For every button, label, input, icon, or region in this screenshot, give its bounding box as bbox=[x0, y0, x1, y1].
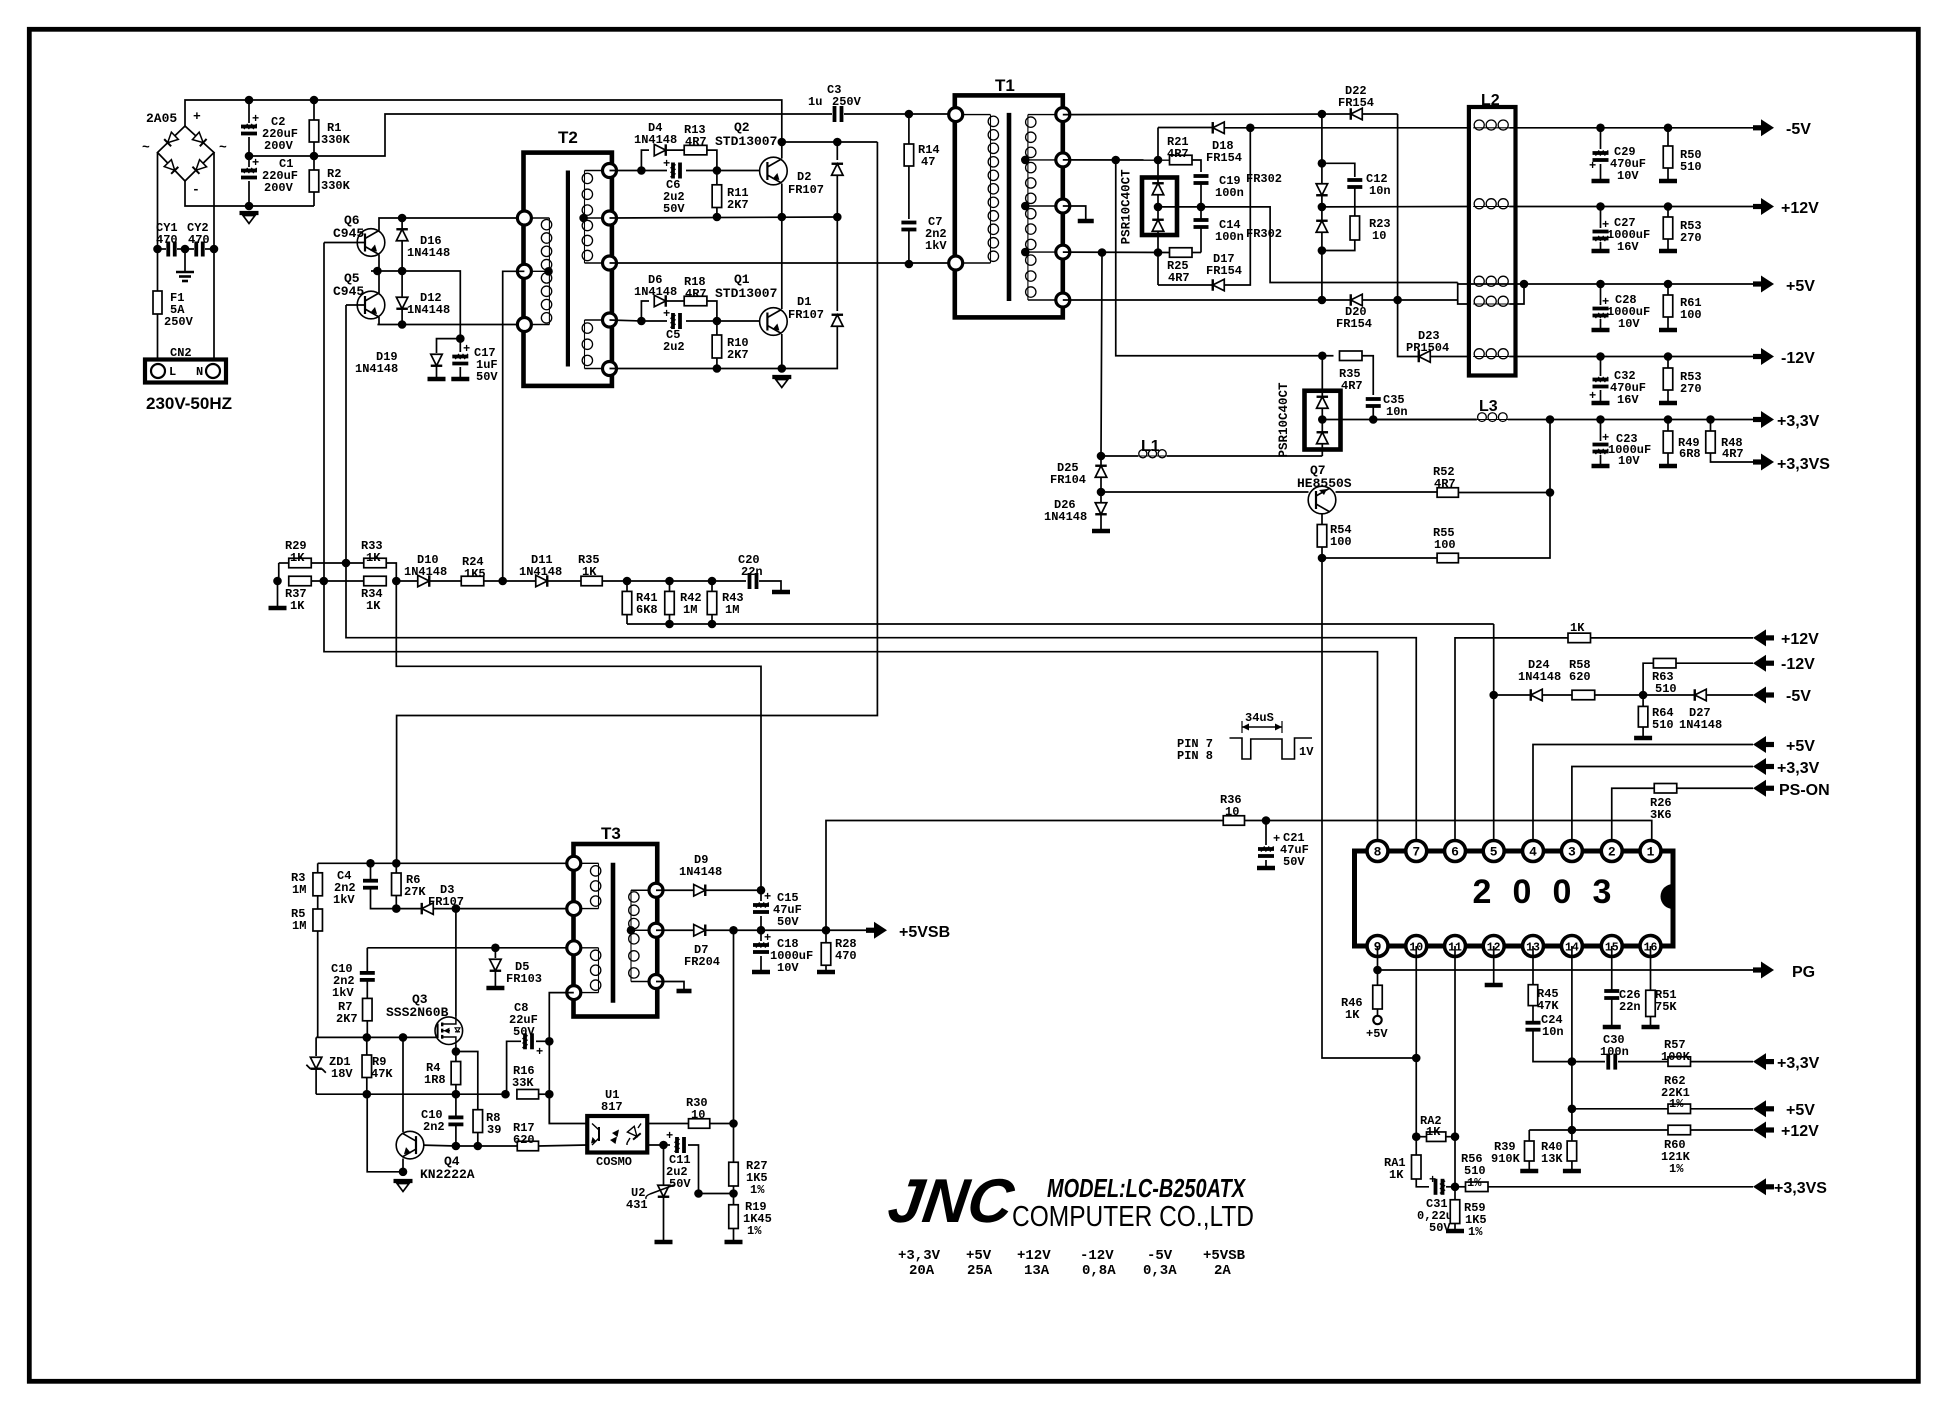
node R8 bottom bbox=[474, 1142, 483, 1151]
svg-text:+: + bbox=[764, 890, 771, 904]
IC pin 14 bbox=[1561, 936, 1582, 957]
capacitor C21 47uF 50V bbox=[1265, 821, 1267, 846]
resistor R21 4R7 bbox=[1170, 155, 1193, 165]
svg-text:HE8550S: HE8550S bbox=[1297, 476, 1352, 491]
node Q1 emitter bbox=[778, 364, 787, 373]
T3 pin left3 bbox=[567, 941, 581, 955]
node R13/C6 right bbox=[713, 166, 722, 175]
node R35 left bbox=[1318, 351, 1327, 360]
svg-text:1N4148: 1N4148 bbox=[679, 865, 722, 879]
resistor R58 620 bbox=[1572, 690, 1595, 700]
IC pin 11 bbox=[1445, 936, 1466, 957]
svg-text:+: + bbox=[1429, 1173, 1436, 1187]
svg-text:PSR10C40CT: PSR10C40CT bbox=[1277, 382, 1291, 458]
svg-text:47K: 47K bbox=[1537, 999, 1559, 1013]
node bottom bbox=[245, 202, 254, 211]
node bbox=[665, 620, 674, 629]
resistor R52 4R7 bbox=[1437, 488, 1458, 498]
capacitor C15 47uF 50V bbox=[760, 890, 762, 901]
svg-text:1N4148: 1N4148 bbox=[1044, 510, 1087, 524]
svg-text:-5V: -5V bbox=[1786, 688, 1811, 705]
T3 pin left4 bbox=[567, 986, 581, 1000]
resistor R57 100K bbox=[1668, 1057, 1691, 1067]
node bbox=[1318, 246, 1327, 255]
svg-text:+: + bbox=[252, 112, 259, 126]
resistor RA2 1K bbox=[1416, 1136, 1426, 1138]
svg-text:4R7: 4R7 bbox=[1434, 477, 1456, 491]
svg-text:MODEL:LC-B250ATX: MODEL:LC-B250ATX bbox=[1047, 1173, 1246, 1203]
node bbox=[363, 1090, 372, 1099]
svg-text:1K: 1K bbox=[290, 599, 305, 613]
svg-text:4R7: 4R7 bbox=[1341, 379, 1363, 393]
capacitor C12 10n bbox=[1322, 163, 1355, 177]
resistor R59 1K5 1% bbox=[1450, 1200, 1460, 1224]
capacitor C27 1000uF 16V bbox=[1600, 207, 1602, 229]
svg-text:75K: 75K bbox=[1655, 1000, 1677, 1014]
svg-text:L3: L3 bbox=[1479, 398, 1498, 415]
capacitor C7 2n2 1kV bbox=[901, 221, 916, 225]
svg-text:+5VSB: +5VSB bbox=[899, 924, 950, 941]
T1 tap3 bbox=[1021, 248, 1030, 257]
svg-text:CN2: CN2 bbox=[170, 346, 192, 360]
resistor R2 bbox=[313, 156, 315, 170]
-5V rail bbox=[1509, 127, 1753, 129]
svg-text:1%: 1% bbox=[747, 1224, 762, 1238]
svg-text:4: 4 bbox=[1529, 845, 1537, 860]
svg-text:+12V: +12V bbox=[1781, 631, 1819, 648]
svg-text:1: 1 bbox=[1647, 845, 1655, 860]
svg-text:470: 470 bbox=[156, 233, 178, 247]
wire U1 pin3 bbox=[647, 1144, 663, 1146]
resistor RA1 1K bbox=[1412, 1155, 1422, 1179]
resistor R23 10 bbox=[1350, 216, 1360, 240]
wire pin15 / capacitor C26 22n bbox=[1611, 946, 1613, 991]
svg-text:22n: 22n bbox=[1619, 1000, 1641, 1014]
left leg bbox=[278, 563, 280, 581]
svg-text:+3,3VS: +3,3VS bbox=[1774, 1180, 1827, 1197]
capacitor C29 470uF 10V bbox=[1600, 128, 1602, 149]
svg-text:2: 2 bbox=[1473, 873, 1492, 911]
line R34 node to D9 node bbox=[396, 581, 761, 890]
T3 pin right2 bbox=[649, 923, 663, 937]
IC pin 16 bbox=[1640, 936, 1661, 957]
node CY2 right bbox=[210, 245, 219, 254]
svg-text:3K6: 3K6 bbox=[1650, 808, 1672, 822]
svg-text:0: 0 bbox=[1513, 873, 1532, 911]
svg-text:1K5: 1K5 bbox=[464, 567, 486, 581]
ground bbox=[184, 249, 186, 272]
wire Q1 base bbox=[717, 320, 760, 322]
svg-text:1M: 1M bbox=[292, 919, 306, 933]
FR302 pair vertical bbox=[1321, 114, 1323, 300]
node R11 bottom bbox=[713, 213, 722, 222]
node R37/R34 bbox=[320, 577, 329, 586]
svg-text:270: 270 bbox=[1680, 231, 1702, 245]
T3 pin right1 bbox=[649, 883, 663, 897]
svg-text:1kV: 1kV bbox=[925, 239, 947, 253]
capacitor C11 2u2 50V bbox=[664, 1144, 671, 1146]
capacitor C20 22n bbox=[748, 573, 752, 589]
wire T2 pin4 to base node bbox=[610, 320, 642, 321]
transformer T3 bbox=[574, 844, 658, 1017]
T2 tap right bbox=[579, 214, 588, 223]
node CY1 left bbox=[153, 245, 162, 254]
Q4 base row bbox=[423, 1144, 517, 1147]
node bbox=[1318, 203, 1327, 212]
svg-text:1kV: 1kV bbox=[333, 893, 355, 907]
svg-text:10V: 10V bbox=[1617, 169, 1639, 183]
capacitor C1 bbox=[248, 156, 250, 167]
svg-text:330K: 330K bbox=[321, 179, 351, 193]
node bbox=[1098, 248, 1107, 257]
svg-text:1N4148: 1N4148 bbox=[404, 565, 447, 579]
svg-text:2K7: 2K7 bbox=[336, 1012, 358, 1026]
svg-text:FR103: FR103 bbox=[506, 972, 542, 986]
wire T2 pin1 to base node bbox=[610, 170, 642, 172]
node D2 top bbox=[833, 138, 842, 147]
svg-text:50V: 50V bbox=[513, 1025, 535, 1039]
resistor R41 6K8 bbox=[626, 581, 628, 591]
T3 pin left2 bbox=[567, 902, 581, 916]
svg-text:817: 817 bbox=[601, 1100, 623, 1114]
wire Q5 collector rail bbox=[378, 271, 380, 293]
resistor R46 1K bbox=[1373, 985, 1383, 1009]
node D2 bottom bbox=[833, 213, 842, 222]
svg-text:470: 470 bbox=[835, 949, 857, 963]
svg-text:KN2222A: KN2222A bbox=[420, 1167, 475, 1182]
svg-text:+3,3V: +3,3V bbox=[898, 1248, 941, 1264]
transistor Q3 SSS2N60B bbox=[435, 1017, 463, 1045]
resistor R37 1K bbox=[289, 576, 312, 586]
node Q4 collector branch bbox=[399, 1033, 408, 1042]
node D5 top bbox=[491, 944, 500, 953]
resistor R18 4R7 bbox=[684, 296, 707, 306]
capacitor C35 10n bbox=[1366, 397, 1381, 401]
svg-text:1K: 1K bbox=[1345, 1008, 1360, 1022]
wire pin5 from snubber line bbox=[1493, 624, 1495, 841]
T1 pin left1 bbox=[949, 108, 963, 122]
T2 pin right3 bbox=[603, 256, 617, 270]
svg-text:47: 47 bbox=[921, 155, 935, 169]
T2 pin right1 bbox=[603, 164, 617, 178]
svg-text:-12V: -12V bbox=[1080, 1248, 1114, 1264]
node C4 top bbox=[366, 859, 375, 868]
Q4 collector bbox=[402, 1037, 404, 1132]
svg-text:34uS: 34uS bbox=[1245, 711, 1274, 725]
svg-text:0: 0 bbox=[1553, 873, 1572, 911]
resistor R4 1R8 bbox=[455, 1052, 457, 1062]
Q2 collector rail bbox=[782, 141, 878, 143]
diode D1 FR107 bbox=[836, 217, 838, 311]
resistor R9 47K bbox=[366, 1037, 368, 1055]
svg-text:7: 7 bbox=[1412, 845, 1420, 860]
svg-text:PIN 8: PIN 8 bbox=[1177, 749, 1213, 763]
transformer T2 bbox=[524, 153, 612, 386]
svg-text:1K: 1K bbox=[582, 565, 597, 579]
wire pin16 / resistor R51 75K bbox=[1650, 946, 1652, 990]
wire R8 branch bbox=[456, 1052, 478, 1110]
diode FR302 upper bbox=[1316, 184, 1328, 196]
svg-text:1N4148: 1N4148 bbox=[1679, 718, 1722, 732]
resistor R35 1K bbox=[581, 576, 602, 586]
svg-text:10: 10 bbox=[1372, 229, 1386, 243]
diode D7 FR204 bbox=[656, 929, 693, 931]
TL431 U2 431 bbox=[663, 1145, 665, 1185]
wire Q7 collector / resistor R54 100 bbox=[1321, 514, 1323, 525]
capacitor C24 10n bbox=[1526, 1021, 1541, 1025]
capacitor CY2 bbox=[185, 248, 194, 250]
inductor L2 bbox=[1469, 107, 1516, 376]
svg-text:JNC: JNC bbox=[884, 1167, 1019, 1236]
svg-text:+5VSB: +5VSB bbox=[1203, 1248, 1246, 1264]
svg-text:250V: 250V bbox=[832, 95, 862, 109]
svg-text:27K: 27K bbox=[404, 885, 426, 899]
svg-text:L: L bbox=[169, 365, 176, 379]
svg-text:50V: 50V bbox=[777, 915, 799, 929]
wire U1 pin1 bbox=[548, 1094, 550, 1123]
resistor R43 1M bbox=[711, 581, 713, 591]
diode D3 FR107 bbox=[396, 908, 421, 910]
wire Q7 emitter to R52 bbox=[1336, 491, 1438, 493]
PG line bbox=[1378, 969, 1754, 971]
capacitor C18 1000uF 10V bbox=[760, 930, 762, 941]
T1 pin right5 bbox=[1056, 293, 1070, 307]
transistor Q1 STD13007 bbox=[760, 308, 788, 336]
wire bridge top to rail bbox=[185, 100, 782, 142]
svg-text:D1: D1 bbox=[797, 295, 811, 309]
PS-ON row / resistor R26 3K6 bbox=[1612, 788, 1655, 840]
capacitor C14 100n bbox=[1200, 207, 1202, 220]
ground bbox=[277, 581, 279, 606]
-12V rail bbox=[1509, 356, 1753, 358]
T1 ground hook bbox=[1063, 206, 1086, 219]
node R7 bottom bbox=[363, 1033, 372, 1042]
wire U1 pin4 / resistor R30 10 bbox=[647, 1123, 688, 1125]
svg-text:1N4148: 1N4148 bbox=[634, 133, 677, 147]
T1 pin right2 bbox=[1056, 153, 1070, 167]
T3 right winding upper bbox=[631, 889, 656, 891]
arrow -12V in bbox=[1753, 655, 1766, 672]
resistor R10 2K7 bbox=[716, 321, 718, 335]
arrow +5V in bbox=[1753, 736, 1766, 753]
resistor R7 2K7 bbox=[363, 998, 373, 1020]
svg-text:25A: 25A bbox=[967, 1263, 993, 1279]
node D24 branch bbox=[1489, 691, 1498, 700]
svg-text:1M: 1M bbox=[725, 603, 739, 617]
svg-text:1K: 1K bbox=[1570, 621, 1585, 635]
svg-text:16V: 16V bbox=[1617, 240, 1639, 254]
node Q2 base branch bbox=[637, 166, 646, 175]
diode D9 1N4148 bbox=[656, 889, 693, 891]
wire pin12 ground bbox=[1493, 946, 1495, 983]
svg-text:510: 510 bbox=[1680, 160, 1702, 174]
svg-text:100K: 100K bbox=[1661, 1050, 1691, 1064]
node R10 bottom bbox=[713, 364, 722, 373]
node bbox=[1596, 352, 1605, 361]
T1 secondary winding bbox=[1028, 114, 1063, 116]
svg-text:STD13007: STD13007 bbox=[715, 286, 777, 301]
svg-text:FR204: FR204 bbox=[684, 955, 720, 969]
node C11 bottom bbox=[694, 1189, 703, 1198]
emitter rail to T2 pin3 bbox=[377, 324, 524, 326]
wire pin10 chain bbox=[1415, 946, 1417, 1155]
Q4 emitter bbox=[402, 1159, 404, 1172]
bridge rectifier 2A05 bbox=[158, 126, 215, 181]
svg-text:0,8A: 0,8A bbox=[1082, 1263, 1116, 1279]
node Q4 emitter bbox=[399, 1168, 408, 1177]
node C21 bbox=[1262, 816, 1271, 825]
node R52 bbox=[1546, 488, 1555, 497]
wire pin9 node bbox=[1377, 946, 1379, 985]
diode D6 1N4148 bbox=[641, 301, 649, 321]
PSR1 top diode bbox=[1152, 183, 1164, 195]
wire T2 pin2-left down to D10/D11 node bbox=[503, 271, 525, 581]
svg-text:3: 3 bbox=[1568, 845, 1576, 860]
svg-text:620: 620 bbox=[513, 1133, 535, 1147]
svg-text:6R8: 6R8 bbox=[1679, 447, 1701, 461]
T3 pin right3 ground bbox=[656, 982, 684, 990]
svg-text:10: 10 bbox=[1225, 805, 1239, 819]
svg-text:1%: 1% bbox=[1669, 1097, 1684, 1111]
snubber line C10a to T3 pin3 bbox=[367, 947, 574, 949]
svg-text:13A: 13A bbox=[1024, 1263, 1050, 1279]
arrow +12V bbox=[1753, 204, 1761, 209]
node midpoint bbox=[778, 213, 787, 222]
wire mid node to C3 line bbox=[249, 114, 832, 156]
svg-text:+: + bbox=[252, 156, 259, 170]
node CY mid bbox=[181, 245, 190, 254]
svg-text:+3,3VS: +3,3VS bbox=[1777, 456, 1830, 473]
node Q5 collector bbox=[373, 267, 382, 276]
rectifier PSR10C40CT bbox=[1142, 178, 1177, 236]
svg-text:1u: 1u bbox=[808, 95, 822, 109]
wire pin11 chain bbox=[1454, 946, 1456, 1200]
IC U3 2003 body bbox=[1355, 851, 1674, 946]
svg-text:50V: 50V bbox=[476, 370, 498, 384]
T3 pin4 wire to C8/U1 bbox=[549, 993, 587, 1124]
svg-text:910K: 910K bbox=[1491, 1152, 1521, 1166]
svg-text:FR302: FR302 bbox=[1246, 227, 1282, 241]
T3 pin left1 bbox=[567, 856, 581, 870]
svg-text:470: 470 bbox=[188, 233, 210, 247]
transistor Q5 C945 bbox=[357, 291, 385, 319]
IC pin 8 bbox=[1367, 841, 1388, 862]
resistor R61 100 bbox=[1667, 284, 1669, 295]
svg-text:FR154: FR154 bbox=[1206, 264, 1242, 278]
resistor R24 1K5 bbox=[461, 576, 484, 586]
svg-text:1%: 1% bbox=[1669, 1162, 1684, 1176]
L2 winding -5V bbox=[1473, 127, 1509, 129]
node D25/D26 bbox=[1097, 488, 1106, 497]
svg-text:1N4148: 1N4148 bbox=[634, 285, 677, 299]
svg-text:1%: 1% bbox=[750, 1183, 765, 1197]
node C7 bottom bbox=[905, 260, 914, 269]
node R63/R64 bbox=[1639, 691, 1648, 700]
svg-text:13K: 13K bbox=[1541, 1152, 1563, 1166]
svg-text:10V: 10V bbox=[1618, 454, 1640, 468]
+5V sense row bbox=[1533, 745, 1753, 841]
T2 pin left2 bbox=[517, 264, 531, 278]
svg-text:6K8: 6K8 bbox=[636, 603, 658, 617]
capacitor C4 2n2 1kV bbox=[370, 863, 372, 880]
svg-text:COSMO: COSMO bbox=[596, 1155, 632, 1169]
node D11 left bbox=[498, 577, 507, 586]
PSR2 top diode bbox=[1317, 397, 1329, 409]
svg-text:PS-ON: PS-ON bbox=[1779, 782, 1830, 799]
ground bbox=[394, 1179, 413, 1183]
wire +5VSB to opto bbox=[733, 930, 735, 1123]
diode D12 1N4148 bbox=[401, 271, 403, 297]
node L3 junction bbox=[1546, 415, 1555, 424]
svg-text:100n: 100n bbox=[1600, 1045, 1629, 1059]
T1 tap2 bbox=[1021, 202, 1030, 211]
svg-text:FR154: FR154 bbox=[1338, 96, 1374, 110]
IC pin 3 bbox=[1561, 841, 1582, 862]
T2 pin left3 bbox=[517, 318, 531, 332]
node bbox=[1318, 296, 1327, 305]
svg-text:2K7: 2K7 bbox=[727, 198, 749, 212]
svg-text:1M: 1M bbox=[292, 883, 306, 897]
wire PSR2 center to L3 bbox=[1322, 419, 1476, 421]
capacitor C6 2u2 50V bbox=[641, 170, 667, 172]
resistor R39 910K bbox=[1528, 1130, 1530, 1141]
node bbox=[1318, 159, 1327, 168]
svg-text:22n: 22n bbox=[741, 565, 763, 579]
svg-text:18V: 18V bbox=[331, 1067, 353, 1081]
node D19/C17 bbox=[456, 334, 465, 343]
T3 left winding lower bbox=[574, 947, 599, 949]
svg-text:-12V: -12V bbox=[1781, 656, 1815, 673]
svg-text:1K: 1K bbox=[1426, 1125, 1441, 1139]
resistor R36 10 bbox=[1223, 816, 1244, 826]
T2 tap node bbox=[544, 267, 553, 276]
arrow +5V fb bbox=[1753, 1100, 1766, 1117]
svg-text:10V: 10V bbox=[1618, 317, 1640, 331]
node bbox=[1520, 280, 1529, 289]
wire Q6 collector bbox=[379, 218, 524, 231]
svg-text:+: + bbox=[463, 342, 470, 356]
svg-text:200V: 200V bbox=[264, 181, 294, 195]
resistor R29 1K bbox=[279, 562, 289, 564]
svg-text:+12V: +12V bbox=[1781, 200, 1819, 217]
node bbox=[273, 577, 282, 586]
arrow +12V fb bbox=[1753, 1122, 1766, 1139]
node R27/R19 bbox=[729, 1189, 738, 1198]
capacitor C19 100n bbox=[1194, 174, 1209, 178]
svg-text:STD13007: STD13007 bbox=[715, 134, 777, 149]
rail T1 pin1 / diode D22 bbox=[1063, 113, 1351, 116]
svg-text:510: 510 bbox=[1655, 682, 1677, 696]
svg-text:-: - bbox=[192, 182, 200, 197]
node D18 bbox=[1246, 124, 1255, 133]
T2 pin right4 bbox=[603, 313, 617, 327]
T1 pin right3 bbox=[1056, 199, 1070, 213]
node Q1 base branch bbox=[637, 317, 646, 326]
wire Q1 emitter bbox=[781, 334, 783, 369]
arrow +3,3VS in bbox=[1753, 1178, 1766, 1195]
T2 pin right2 bbox=[603, 211, 617, 225]
transistor Q4 KN2222A bbox=[396, 1131, 424, 1159]
resistor R48 4R7 bbox=[1710, 420, 1712, 432]
arrow +12V in bbox=[1753, 629, 1766, 646]
arrow +5V bbox=[1753, 281, 1761, 286]
svg-text:+: + bbox=[1589, 159, 1596, 173]
svg-text:+5V: +5V bbox=[1786, 1102, 1815, 1119]
capacitor C5 2u2 bbox=[641, 320, 667, 322]
PSR2 center node bbox=[1318, 415, 1327, 424]
svg-text:1kV: 1kV bbox=[332, 986, 354, 1000]
diode D26 1N4148 bbox=[1100, 492, 1102, 502]
